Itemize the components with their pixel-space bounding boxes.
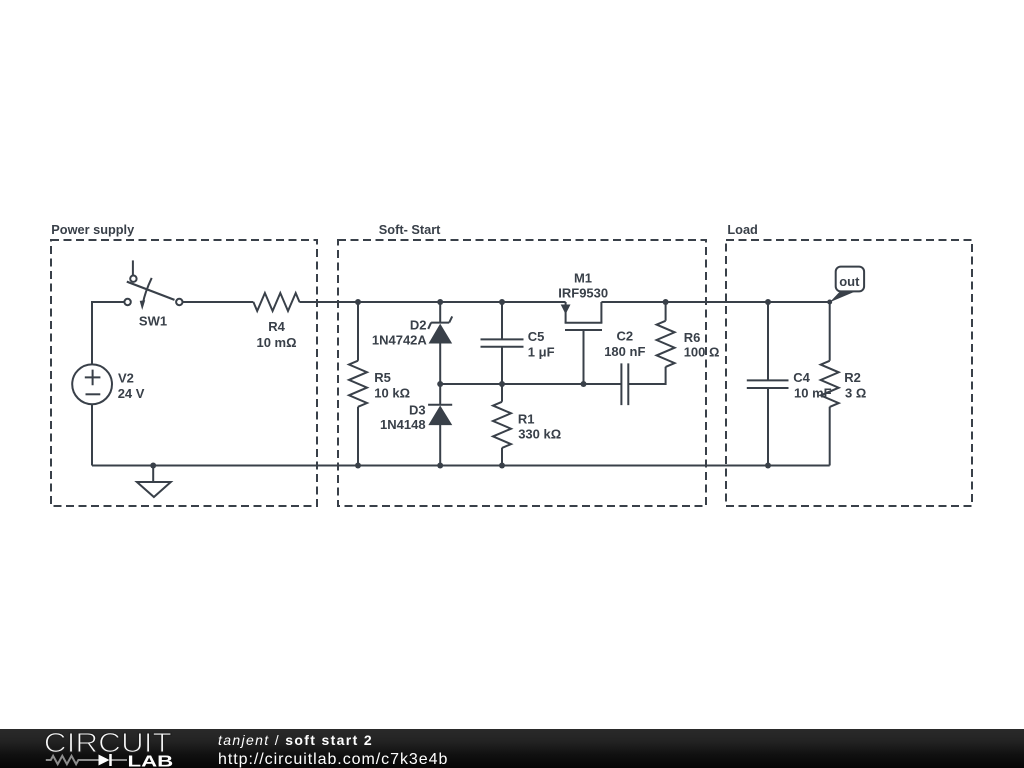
switch SW1 bbox=[124, 260, 182, 310]
junction ground rail / R5 bbox=[355, 463, 361, 469]
capacitor C2 bbox=[621, 363, 628, 405]
label D2 bbox=[372, 317, 428, 347]
wire R1 branch bbox=[501, 384, 503, 466]
svg-text:24 V: 24 V bbox=[118, 386, 145, 401]
voltage source V2 bbox=[72, 364, 112, 404]
svg-text:D2: D2 bbox=[410, 317, 427, 332]
node out dot bbox=[827, 300, 832, 305]
svg-text:R4: R4 bbox=[268, 319, 285, 334]
svg-text:R1: R1 bbox=[518, 412, 535, 427]
wire top rail from switch to R4 bbox=[183, 301, 254, 303]
zener diode D2 bbox=[428, 316, 452, 343]
junction ground rail / D3 bbox=[437, 463, 443, 469]
wire C4 branch bbox=[767, 302, 769, 466]
wire V2 bottom to ground rail bbox=[91, 404, 93, 465]
CircuitLab logo bbox=[0, 729, 190, 768]
ground bbox=[137, 466, 171, 498]
svg-text:R6: R6 bbox=[684, 330, 701, 345]
wire top rail M1 drain to out node bbox=[601, 301, 829, 303]
resistor R4 bbox=[253, 293, 299, 311]
svg-text:out: out bbox=[839, 274, 860, 289]
diode D3 bbox=[428, 405, 452, 425]
svg-text:100 Ω: 100 Ω bbox=[684, 345, 720, 360]
wire C5 branch bbox=[501, 302, 503, 384]
junction ground rail / R1 bbox=[499, 463, 505, 469]
label R6 bbox=[684, 330, 720, 360]
svg-text:330 kΩ: 330 kΩ bbox=[518, 427, 561, 442]
svg-text:IRF9530: IRF9530 bbox=[558, 286, 608, 301]
svg-text:10 kΩ: 10 kΩ bbox=[374, 386, 410, 401]
svg-text:10 mΩ: 10 mΩ bbox=[256, 335, 296, 350]
wire bottom ground rail bbox=[92, 465, 830, 467]
capacitor C4 bbox=[747, 380, 789, 388]
wire mid rail D2 junction to C2 bbox=[440, 383, 621, 385]
junction mid rail / D2 D3 bbox=[437, 381, 443, 387]
junction top rail / D2 bbox=[437, 299, 443, 305]
svg-text:Soft- Start: Soft- Start bbox=[379, 222, 441, 237]
svg-text:C2: C2 bbox=[616, 329, 633, 344]
label C5 bbox=[528, 329, 555, 359]
junction top rail / C4 bbox=[765, 299, 771, 305]
wire C2 to R6 bbox=[628, 302, 665, 384]
label R4 bbox=[256, 319, 296, 350]
junction top rail / C5 bbox=[499, 299, 505, 305]
label R2 bbox=[844, 370, 866, 400]
svg-text:D3: D3 bbox=[409, 402, 426, 417]
resistor R6 bbox=[657, 321, 675, 367]
label C2 bbox=[604, 329, 645, 360]
svg-text:R2: R2 bbox=[844, 370, 861, 385]
svg-text:Power supply: Power supply bbox=[51, 222, 135, 237]
svg-text:180 nF: 180 nF bbox=[604, 344, 645, 359]
junction top rail / R5 bbox=[355, 299, 361, 305]
svg-text:Load: Load bbox=[727, 222, 757, 237]
label M1 bbox=[558, 270, 608, 300]
footer title and url bbox=[217, 728, 219, 730]
svg-text:3 Ω: 3 Ω bbox=[845, 386, 866, 401]
junction ground rail / C4 bbox=[765, 463, 771, 469]
svg-text:M1: M1 bbox=[574, 270, 592, 285]
svg-text:1N4148: 1N4148 bbox=[380, 417, 426, 432]
section box Soft-Start bbox=[338, 240, 706, 506]
wire top rail R4 to M1 source bbox=[299, 301, 565, 303]
label D3 bbox=[380, 402, 426, 432]
label R1 bbox=[518, 412, 561, 442]
wire R5 branch bbox=[357, 302, 359, 466]
svg-text:R5: R5 bbox=[374, 370, 391, 385]
junction mid rail / M1 gate bbox=[581, 381, 587, 387]
resistor R2 bbox=[821, 361, 839, 407]
capacitor C5 bbox=[481, 339, 524, 346]
resistor R5 bbox=[349, 361, 367, 407]
label V2 bbox=[118, 371, 145, 401]
node flag out bbox=[830, 267, 864, 303]
svg-text:LAB: LAB bbox=[128, 753, 174, 768]
wire D2 D3 branch bbox=[439, 302, 441, 466]
svg-text:1N4742A: 1N4742A bbox=[372, 333, 428, 348]
junction top rail / R6 bbox=[663, 299, 669, 305]
svg-text:C4: C4 bbox=[793, 370, 810, 385]
junction mid rail / C5 R1 bbox=[499, 381, 505, 387]
svg-text:SW1: SW1 bbox=[139, 313, 167, 328]
mosfet M1 bbox=[561, 302, 603, 384]
svg-text:C5: C5 bbox=[528, 329, 545, 344]
section box Power supply bbox=[51, 240, 317, 506]
junction ground rail at ground symbol bbox=[150, 463, 156, 469]
footer bar bbox=[0, 729, 1024, 768]
resistor R1 bbox=[493, 402, 511, 448]
label C4 bbox=[793, 370, 831, 401]
svg-text:V2: V2 bbox=[118, 371, 134, 386]
section box Load bbox=[726, 240, 972, 506]
wire R2 branch bbox=[829, 302, 831, 466]
label R5 bbox=[374, 370, 410, 400]
wire switch pole to V2 bbox=[92, 302, 124, 364]
svg-text:1 μF: 1 μF bbox=[528, 344, 555, 359]
